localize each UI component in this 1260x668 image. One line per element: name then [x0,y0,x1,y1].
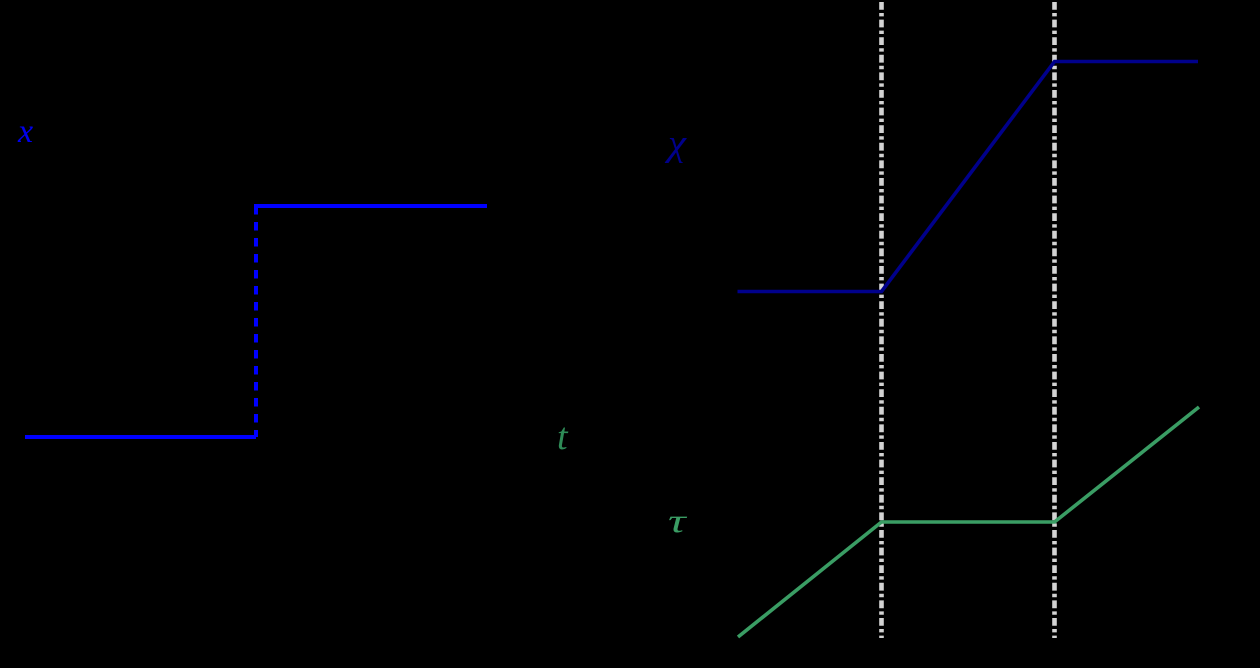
svg-text:t: t [557,416,569,458]
svg-text:τ: τ [668,502,688,540]
right plot: gray dash-dot vertical line 2 [1052,2,1057,638]
right plot: gray dash-dot vertical line 1 [879,2,884,638]
svg-text:x: x [17,113,33,150]
right plot: tau curve (green) [738,407,1199,637]
left plot: dashed jump of x(t) [254,206,258,437]
left plot: step signal x(t) high segment [254,204,487,208]
right plot: chi curve (dark blue) [738,62,1199,292]
svg-text:χ: χ [664,123,687,164]
left plot: step signal x(t) low segment [25,435,256,439]
